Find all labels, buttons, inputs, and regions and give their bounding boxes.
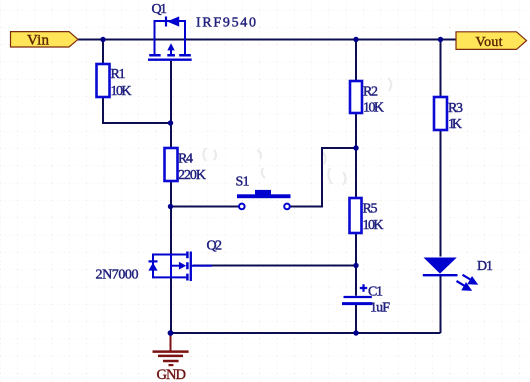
svg-text:10K: 10K <box>363 101 384 116</box>
svg-text:1uF: 1uF <box>370 301 390 316</box>
svg-text:10K: 10K <box>363 218 384 233</box>
svg-text:10K: 10K <box>111 84 132 99</box>
svg-text:S1: S1 <box>236 175 250 190</box>
svg-text:Q1: Q1 <box>152 2 168 17</box>
svg-text:220K: 220K <box>178 168 206 183</box>
svg-text:R4: R4 <box>178 152 193 167</box>
svg-text:R1: R1 <box>111 67 126 82</box>
svg-text:D1: D1 <box>477 259 493 274</box>
svg-text:2N7000: 2N7000 <box>96 268 139 283</box>
svg-text:Q2: Q2 <box>207 239 223 254</box>
svg-text:1K: 1K <box>448 117 462 132</box>
svg-text:R2: R2 <box>363 85 378 100</box>
svg-text:R5: R5 <box>363 202 378 217</box>
svg-text:Vin: Vin <box>27 32 50 48</box>
svg-text:R3: R3 <box>448 101 463 116</box>
svg-text:C1: C1 <box>368 285 383 300</box>
svg-text:Vout: Vout <box>476 35 503 50</box>
svg-text:IRF9540: IRF9540 <box>196 16 256 31</box>
svg-text:GND: GND <box>157 367 187 382</box>
